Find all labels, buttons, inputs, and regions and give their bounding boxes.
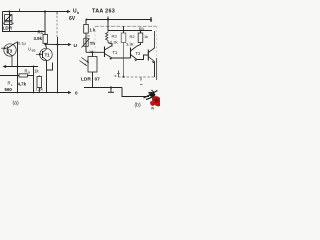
transistor T2 collector stroke [131,46,138,51]
node dot on rail at LDR branch [9,11,11,13]
dashed IC box TAA263 top edge [95,25,157,27]
svg-text:U: U [28,46,31,51]
trimmer body below LDR [4,22,12,25]
svg-text:3,3k: 3,3k [126,41,134,46]
resistor R1 1k body (b) [138,33,143,43]
mid rail wire (a) with left terminal arrow [4,66,38,68]
wire RE branch [38,76,40,93]
resistor R3 body [106,31,109,43]
transistor T3 collector stroke (b) [148,31,154,53]
resistor 4.7k body [19,74,27,77]
transistor T1 base bar and arrow [42,51,44,58]
terminal blob rail right end [150,17,152,22]
resistor R1 1k column (b) [140,30,142,32]
wire LDR bottom to ground rail [92,72,94,88]
LDR adjust arrow [5,15,11,21]
svg-text:1k: 1k [144,34,148,39]
watermark red dark core [154,98,158,102]
wire T2 emitter to T3 base [137,55,148,60]
transistor T1 collector stroke (a) [43,49,47,53]
svg-text:T1: T1 [45,52,51,57]
wire LDR top lead [92,52,94,56]
transistor T2 base bar [130,48,132,59]
capacitor 0.1u branch to mid rail [17,42,19,67]
svg-text:(a): (a) [13,101,19,107]
node dot ground pin [110,86,112,88]
wire R1 to T1 collector [45,43,46,48]
svg-text:TAA 263: TAA 263 [92,9,115,15]
transistor T1 emitter stroke (a) [43,57,47,60]
node dot mid rail far left [5,66,7,68]
wire T1 emitter hook [47,60,53,70]
svg-text:4,7k: 4,7k [18,82,27,87]
wire T1 emitter to T2 base [112,57,131,59]
wire branch vertical left [17,67,19,93]
svg-text:b: b [88,34,90,38]
pin stub e [117,71,120,78]
wire left edge vertical [2,12,4,32]
node dot mid rail left [17,66,19,68]
svg-text:(b): (b) [135,103,141,109]
svg-text:T2: T2 [136,51,142,56]
svg-text:0: 0 [75,90,78,95]
transistor T3 emitter stroke with arrow (b) [148,57,154,62]
photoresistor LDR body [5,15,12,21]
transistor T1 (b) collector stroke [105,46,113,51]
wire collector node to output column [45,43,57,45]
svg-text:T3: T3 [7,49,13,54]
wire 1k to T2 collector [137,43,141,47]
wire branch vertical right [33,67,35,93]
wire resistor to node [27,75,33,77]
node dots bottom rail [17,92,19,94]
svg-text:U: U [74,43,78,49]
photoresistor LDR 07 body [88,57,97,73]
transistor T3 emitter stroke [7,52,12,67]
svg-text:0,1µ: 0,1µ [18,41,27,46]
svg-text:3.9k: 3.9k [34,36,43,41]
wire base line to T1 (b) [86,51,105,53]
svg-text:1,2k: 1,2k [36,87,44,92]
pin tick on rail [19,9,21,12]
svg-text:R2: R2 [130,34,136,39]
terminal arrow 0V [68,91,72,94]
ground rail circuit (b) [84,87,122,89]
svg-text:R3: R3 [112,33,118,38]
wire top supply rail circuit (a) [3,11,71,13]
svg-text:Th: Th [90,41,96,46]
wire T3 emitter down to box edge [154,62,156,78]
svg-text:1 k: 1 k [90,28,96,33]
node dot mid rail right [33,66,35,68]
wire internal top line (b) [108,30,152,32]
wire output column (a) [57,37,59,93]
svg-text:LDR: LDR [81,77,91,83]
transistor T3 circle [4,44,16,56]
IC box right edge [156,26,158,60]
svg-text:B: B [28,71,30,75]
wire step down corner [122,88,149,97]
transistor T1 (b) base bar [104,47,106,58]
top supply rail circuit (b) [86,19,151,21]
resistor R2 column [123,26,125,33]
svg-text:e: e [115,74,117,78]
svg-text:10: 10 [89,50,93,54]
node dot rail b left corner [86,19,88,21]
dashed IC box left edge [94,26,96,55]
node dot on rail at R1 branch [44,10,46,12]
terminal arrow Ub [67,10,71,13]
dashed IC box bottom edge [118,76,157,78]
svg-text:T1: T1 [113,50,119,55]
wire LDR branch vertical [9,12,11,32]
pin tick on rail at x108 [107,17,109,24]
resistor R2 body [121,33,126,43]
wire emitter column to bottom rail [46,70,48,93]
svg-text:2,2k: 2,2k [110,39,118,44]
node dot output (a) [56,43,58,45]
wire node line LDR to R1 [2,31,45,33]
svg-text:07: 07 [95,77,101,83]
tick at rail for load line [56,12,58,15]
dashed collector load line [56,12,58,38]
wire R1 branch from rail [44,12,46,35]
resistor RE body [37,77,42,88]
transistor T2 emitter stroke with arrow [131,55,138,60]
watermark scribble strokes [144,90,158,100]
wire R2 to dashed bottom pin [123,43,125,59]
thermistor Th body [84,38,88,46]
node dot R1 bottom [44,43,46,45]
svg-text:b: b [77,11,79,15]
svg-text:R1: R1 [139,26,145,31]
wire feedback branch [0,75,19,77]
bottom rail wire (a) [0,92,69,94]
wire output arrow Ua [58,44,70,46]
resistor R3 zigzag column [107,24,109,31]
watermark red rose blob [150,96,160,106]
thermistor Th diagonal [82,39,90,48]
wire left column (b) [85,20,87,25]
node dot LDR top [92,51,94,53]
transistor T1 circle (a) [40,48,52,60]
wire below resistor [85,33,87,52]
ground pin stub and bar [110,88,112,93]
svg-text:BE: BE [32,49,36,53]
wire R3 to T1 collector [108,43,112,47]
transistor T1 (b) emitter stroke with arrow [105,54,113,59]
resistor R1 3.9k body [43,35,48,44]
svg-text:LDR: LDR [3,25,13,30]
LDR 07 light arrows [80,58,89,66]
svg-text:R1: R1 [38,29,44,34]
svg-text:560: 560 [5,87,13,92]
pin stub x141 [140,77,142,81]
svg-text:6V: 6V [69,16,76,22]
transistor T3 base bar (b) [147,50,149,61]
transistor T3 collector stroke [7,42,17,49]
transistor T3 base bar and arrow [6,47,8,54]
resistor 1k body (b left) [84,25,89,34]
